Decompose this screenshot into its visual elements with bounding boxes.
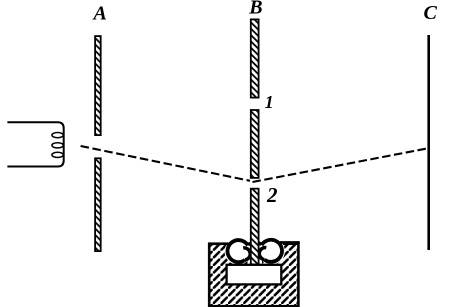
dashed beam path: slit 2 to screen C [253,148,429,182]
filament coil loop 3 [52,152,63,157]
filament coil loop 1 [52,133,63,138]
block top edge left segment [208,243,229,246]
svg-text:2: 2 [266,183,278,207]
filament coil loop 2 [52,143,63,148]
plate B top segment [251,19,259,97]
support block (hatched) [209,244,298,307]
plate A upper segment [95,36,101,135]
right scroll clamp [262,240,282,262]
plate B lower segment (rod into block) [251,189,259,265]
svg-text:C: C [424,2,438,24]
svg-text:A: A [92,3,107,25]
block top edge right segment [280,241,300,244]
svg-text:B: B [248,0,262,18]
source box (electron gun enclosure) [7,122,63,166]
dashed beam path: source to slit 2 [81,146,250,181]
plate A lower segment [95,158,101,251]
plate B middle segment [251,110,259,178]
white clearance around right scroll [258,238,285,265]
white channel for rod [248,228,263,266]
left scroll clamp [227,240,247,262]
svg-text:1: 1 [265,92,274,112]
slot cavity in block [227,265,282,285]
screen C [427,35,430,250]
white clearance around left scroll [225,238,252,265]
